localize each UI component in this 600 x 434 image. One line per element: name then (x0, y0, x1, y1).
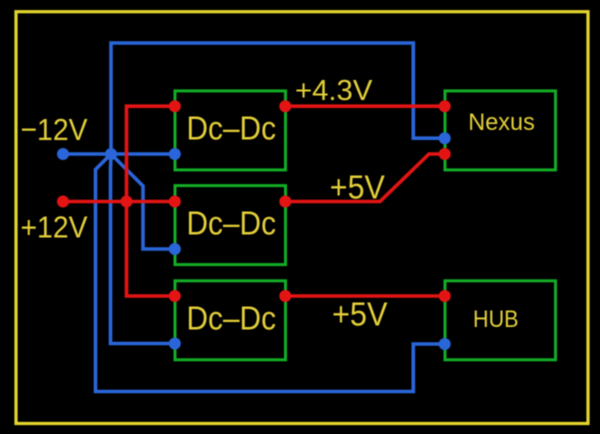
pin Nexus 1 (439, 100, 451, 112)
svg-text:Nexus: Nexus (468, 109, 535, 136)
pin HUB 1 (439, 290, 451, 302)
svg-text:−12V: −12V (21, 112, 88, 147)
wire +12V horizontal (63, 200, 175, 204)
pin U2 out (279, 196, 291, 208)
wire blue middle branch to Dc-Dc 3 (111, 154, 175, 344)
converter U1 Dc-Dc (175, 91, 286, 170)
svg-text:+5V: +5V (332, 296, 388, 333)
svg-text:+4.3V: +4.3V (295, 75, 373, 107)
wire red riser Dc-Dc1 to Dc-Dc3 (127, 106, 175, 296)
wire +5V to HUB (285, 294, 444, 298)
pin U2 in+ (169, 196, 181, 208)
pin U3 in+ (169, 290, 181, 302)
svg-text:HUB: HUB (473, 306, 519, 333)
wire blue left branch to HUB (96, 154, 445, 392)
pin U3 out (279, 290, 291, 302)
pin HUB 2 (439, 338, 451, 350)
pin U1 in+ (169, 100, 181, 112)
svg-text:+5V: +5V (330, 169, 385, 206)
module Nexus (445, 91, 556, 170)
svg-text:Dc–Dc: Dc–Dc (187, 110, 277, 147)
pin U2 in- (169, 243, 181, 255)
svg-text:+12V: +12V (21, 210, 88, 245)
wire +4.3V to Nexus (285, 104, 444, 108)
node blue junction (105, 148, 117, 160)
pin U1 out (279, 100, 291, 112)
wire +5V to Nexus (285, 154, 444, 202)
node -12V endpoint (57, 148, 69, 160)
wire blue right branch to Dc-Dc 2 (111, 154, 175, 249)
svg-text:Dc–Dc: Dc–Dc (187, 300, 277, 337)
pin U1 in- (169, 148, 181, 160)
pin Nexus 3 (439, 148, 451, 160)
pin U3 in- (169, 338, 181, 350)
converter U2 Dc-Dc (175, 186, 286, 265)
svg-text:Dc–Dc: Dc–Dc (187, 205, 277, 242)
wire blue top loop to Nexus (111, 43, 445, 154)
wire -12V horizontal (63, 152, 175, 156)
pin Nexus 2 (439, 132, 451, 144)
node +12V endpoint (57, 196, 69, 208)
converter U3 Dc-Dc (175, 281, 286, 360)
module HUB (445, 281, 556, 360)
node red junction (121, 196, 133, 208)
